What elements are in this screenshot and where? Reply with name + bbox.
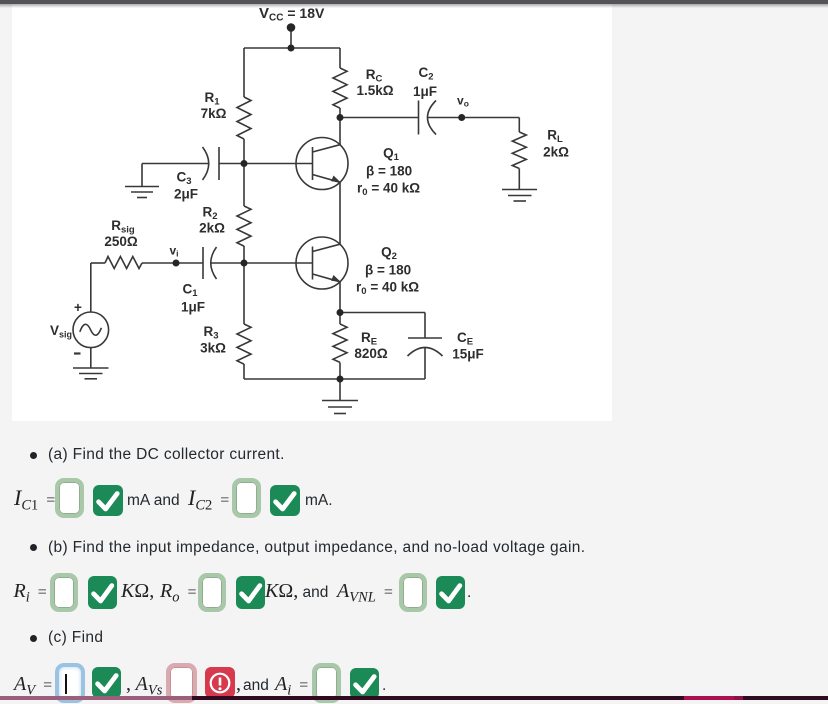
resistor R3 bbox=[237, 324, 251, 364]
ground main bbox=[339, 379, 341, 401]
svg-text:C1: C1 bbox=[182, 282, 198, 300]
svg-text:250Ω: 250Ω bbox=[104, 234, 138, 249]
wire C1 to node bbox=[211, 262, 244, 264]
wire Q2 base bbox=[244, 262, 313, 264]
capacitor CE bbox=[408, 337, 442, 339]
answer row c bbox=[14, 674, 52, 698]
svg-text:R2: R2 bbox=[202, 205, 217, 223]
resistor RC bbox=[333, 68, 347, 108]
top dark bar bbox=[0, 0, 828, 4]
node vo bbox=[458, 114, 465, 121]
node R2 R3 base junction bbox=[241, 260, 248, 267]
svg-text:R3: R3 bbox=[203, 324, 218, 342]
svg-text:15μF: 15μF bbox=[452, 347, 484, 362]
svg-text:RL: RL bbox=[547, 128, 563, 146]
capacitor C2 bbox=[418, 101, 420, 135]
wire Q1 base bbox=[244, 163, 313, 165]
svg-text:C3: C3 bbox=[176, 170, 191, 188]
svg-text:r0 = 40 kΩ: r0 = 40 kΩ bbox=[357, 181, 420, 199]
resistor R2 bbox=[237, 206, 251, 246]
resistor Rsig bbox=[105, 257, 142, 269]
wire bottom rail bbox=[244, 378, 425, 380]
wire Vsig bottom bbox=[90, 348, 92, 368]
svg-text:+: + bbox=[74, 300, 82, 315]
svg-text:C2: C2 bbox=[418, 65, 433, 83]
transistor Q1 bbox=[296, 138, 348, 190]
wire Vcc stub bbox=[290, 28, 292, 48]
question row b bbox=[30, 544, 37, 551]
node vi bbox=[173, 260, 180, 267]
node bottom rail junction bbox=[337, 376, 344, 383]
wire RL bottom bbox=[518, 169, 520, 190]
svg-text:820Ω: 820Ω bbox=[354, 346, 388, 361]
wire left branch upper bbox=[243, 48, 245, 97]
wire C3 to node bbox=[219, 163, 244, 165]
node emitter RE junction bbox=[337, 309, 344, 316]
svg-text:β = 180: β = 180 bbox=[366, 164, 412, 179]
svg-text:1.5kΩ: 1.5kΩ bbox=[356, 83, 393, 98]
answer row b bbox=[14, 581, 47, 605]
wire R1 bottom to node bbox=[243, 139, 245, 206]
svg-text:1μF: 1μF bbox=[413, 84, 437, 99]
source Vsig bbox=[73, 312, 109, 348]
svg-text:Q1: Q1 bbox=[383, 146, 400, 164]
wire C2 to vo to RL bbox=[428, 117, 520, 119]
svg-text:3kΩ: 3kΩ bbox=[200, 341, 226, 356]
transistor Q2 bbox=[296, 237, 348, 289]
node collector output bbox=[337, 114, 344, 121]
svg-text:vi: vi bbox=[169, 244, 178, 259]
resistor R1 bbox=[237, 97, 251, 139]
question row a bbox=[30, 452, 37, 459]
wire collector node to C2 bbox=[340, 117, 419, 119]
svg-text:2kΩ: 2kΩ bbox=[543, 145, 569, 160]
wire Q1 emitter to Q2 collector bbox=[339, 182, 341, 244]
svg-text:r0 = 40 kΩ: r0 = 40 kΩ bbox=[356, 280, 419, 298]
svg-text:Q2: Q2 bbox=[381, 245, 397, 263]
bottom bar bbox=[0, 696, 828, 701]
white schematic panel bbox=[12, 4, 612, 421]
svg-text:RE: RE bbox=[361, 330, 377, 348]
wire R3 bottom bbox=[243, 364, 245, 379]
wire Q2 emitter to RE node bbox=[339, 282, 341, 325]
ground RL bbox=[502, 189, 537, 191]
svg-text:CE: CE bbox=[457, 330, 473, 348]
ground C3 bbox=[125, 186, 159, 188]
capacitor C1 bbox=[202, 247, 204, 279]
wire RC bottom to collector node bbox=[339, 108, 341, 145]
svg-text:Vsig: Vsig bbox=[50, 323, 72, 340]
wire RE bottom bbox=[339, 363, 341, 380]
wire right branch upper bbox=[339, 48, 341, 68]
wire top rail bbox=[244, 47, 340, 49]
CIRCUIT SVG bbox=[12, 4, 612, 421]
wire R2 bottom to node bbox=[243, 246, 245, 324]
node R1 R2 base junction bbox=[241, 160, 248, 167]
wire Vsig riser bbox=[90, 263, 92, 312]
svg-text:β = 180: β = 180 bbox=[365, 263, 411, 278]
label minus bbox=[74, 352, 81, 354]
svg-text:1μF: 1μF bbox=[181, 300, 205, 315]
resistor RL bbox=[512, 132, 526, 169]
wire C3 left to ground riser bbox=[142, 163, 209, 165]
resistor RE bbox=[333, 324, 347, 362]
node Vcc terminal bbox=[287, 23, 296, 32]
question row c bbox=[30, 635, 37, 642]
svg-text:2kΩ: 2kΩ bbox=[199, 221, 225, 236]
svg-text:RC: RC bbox=[366, 67, 383, 85]
svg-text:Rsig: Rsig bbox=[111, 218, 135, 236]
capacitor C3 bbox=[203, 147, 209, 180]
wire Rsig to vi to C1 bbox=[142, 262, 203, 264]
svg-text:VCC = 18V: VCC = 18V bbox=[259, 5, 325, 24]
svg-text:R1: R1 bbox=[204, 90, 220, 108]
answer row a bbox=[14, 487, 55, 513]
svg-text:7kΩ: 7kΩ bbox=[201, 106, 227, 121]
wire RE node to CE bbox=[340, 312, 425, 314]
ground Vsig bbox=[73, 367, 109, 369]
node rail junction bbox=[288, 45, 295, 52]
svg-text:2μF: 2μF bbox=[174, 187, 198, 202]
svg-text:vo: vo bbox=[457, 94, 469, 109]
